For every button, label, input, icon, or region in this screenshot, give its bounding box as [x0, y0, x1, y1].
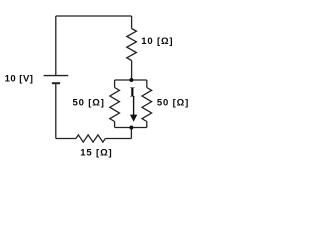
svg-text:50 [Ω]: 50 [Ω] [157, 97, 189, 108]
wire right vertical top stub [131, 16, 133, 29]
wire right branch bottom stub [146, 122, 148, 128]
svg-text:I: I [130, 86, 135, 101]
current arrow I head [130, 115, 137, 122]
svg-text:50 [Ω]: 50 [Ω] [73, 97, 105, 108]
wire parallel top rail [115, 79, 147, 81]
wire bottom right of resistor [105, 138, 131, 140]
wire parallel bottom rail [115, 127, 147, 129]
battery V1 short plate [52, 82, 60, 84]
wire bottom left of resistor [56, 138, 76, 140]
wire R1 bottom stub to node [131, 61, 133, 81]
svg-text:15 [Ω]: 15 [Ω] [80, 147, 112, 158]
svg-text:10 [Ω]: 10 [Ω] [141, 36, 173, 47]
wire right branch top stub [146, 80, 148, 88]
wire top [56, 15, 132, 17]
wire left vertical lower [55, 83, 57, 138]
battery V1 long plate [44, 75, 69, 77]
wire left branch bottom stub [114, 122, 116, 128]
wire left vertical upper [55, 16, 57, 76]
resistor R2 50 ohm left zigzag [110, 88, 120, 122]
node top junction dot [129, 78, 133, 82]
wire left branch top stub [114, 80, 116, 88]
resistor R3 50 ohm right zigzag [142, 88, 152, 122]
svg-text:10 [V]: 10 [V] [5, 73, 34, 84]
current arrow I shaft [133, 96, 135, 118]
resistor R4 15 ohm horizontal zigzag [76, 135, 105, 142]
resistor R1 10 ohm zigzag [127, 29, 137, 61]
wire from bottom node down [130, 128, 132, 139]
node bottom junction dot [129, 126, 133, 130]
